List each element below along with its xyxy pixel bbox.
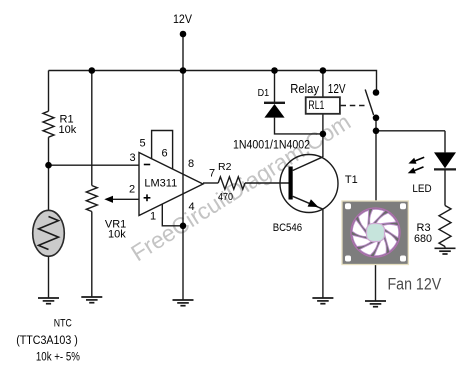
- svg-text:8: 8: [188, 158, 194, 170]
- svg-text:12V: 12V: [173, 12, 192, 26]
- svg-text:1N4001/1N4002: 1N4001/1N4002: [233, 140, 310, 152]
- svg-text:4: 4: [188, 201, 194, 213]
- svg-text:(TTC3A103 ): (TTC3A103 ): [16, 335, 78, 347]
- svg-text:7: 7: [209, 168, 215, 180]
- svg-text:Relay: Relay: [290, 81, 319, 96]
- svg-text:10k +- 5%: 10k +- 5%: [36, 351, 80, 363]
- svg-text:12V: 12V: [328, 81, 346, 96]
- svg-text:BC546: BC546: [273, 222, 302, 234]
- svg-text:5: 5: [139, 138, 145, 150]
- svg-text:D1: D1: [258, 87, 270, 99]
- svg-text:NTC: NTC: [54, 317, 72, 329]
- svg-text:10k: 10k: [59, 124, 77, 136]
- svg-text:RL1: RL1: [308, 100, 324, 112]
- svg-text:R2: R2: [218, 161, 232, 173]
- svg-text:2: 2: [129, 184, 135, 196]
- svg-text:LED: LED: [412, 183, 431, 195]
- svg-text:1: 1: [150, 211, 156, 223]
- svg-text:3: 3: [129, 152, 135, 164]
- svg-text:470: 470: [218, 191, 233, 203]
- svg-text:6: 6: [161, 148, 167, 160]
- svg-text:680: 680: [414, 233, 432, 245]
- svg-text:10k: 10k: [108, 228, 126, 240]
- svg-text:Fan 12V: Fan 12V: [388, 276, 442, 294]
- svg-text:T1: T1: [345, 174, 358, 186]
- svg-text:LM311: LM311: [144, 178, 177, 190]
